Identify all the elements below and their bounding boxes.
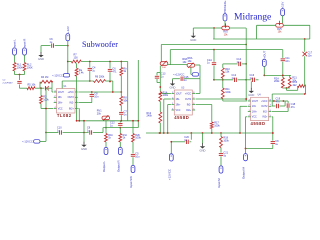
svg-text:TL082: TL082 — [57, 113, 72, 118]
wire — [105, 142, 107, 147]
svg-text:10n: 10n — [308, 54, 313, 57]
wire — [106, 80, 113, 82]
wire — [78, 102, 91, 104]
svg-text:GND: GND — [200, 149, 206, 153]
svg-text:1IN-: 1IN- — [176, 99, 181, 101]
svg-text:4k2: 4k2 — [293, 84, 298, 87]
wire — [202, 133, 204, 144]
resistor R9 — [120, 68, 123, 76]
junction — [83, 120, 85, 122]
wire — [271, 116, 274, 118]
svg-text:100k: 100k — [223, 139, 229, 142]
svg-text:1IN+: 1IN+ — [252, 111, 258, 113]
junction — [67, 45, 69, 47]
wire — [220, 133, 222, 137]
svg-text:Output M: Output M — [242, 167, 246, 179]
wire — [132, 142, 134, 153]
capacitor C18 — [287, 103, 289, 107]
wire mid col — [159, 67, 161, 92]
wire u4 right — [272, 100, 285, 102]
svg-text:VCC: VCC — [252, 117, 257, 119]
wire — [263, 66, 265, 75]
junction — [51, 81, 53, 83]
ground — [172, 81, 174, 84]
svg-text:Output L: Output L — [102, 161, 106, 172]
resistor R1b — [105, 134, 108, 143]
wire — [246, 79, 251, 81]
resistor R1A — [159, 92, 162, 102]
junction — [211, 132, 213, 134]
wire — [159, 123, 161, 133]
wire — [39, 82, 41, 88]
wire — [159, 65, 161, 68]
svg-text:IN2+: IN2+ — [186, 110, 192, 112]
resistor RL1 — [13, 63, 16, 72]
resistor R12 — [159, 112, 162, 123]
junction — [109, 81, 111, 83]
wire — [283, 24, 310, 26]
wire — [257, 24, 276, 26]
svg-text:Subwoofer: Subwoofer — [82, 40, 118, 49]
wire — [272, 144, 274, 148]
resistor R2b — [132, 134, 135, 143]
wire — [19, 75, 21, 81]
junction — [273, 100, 275, 102]
wire vcc top stub — [61, 81, 63, 88]
wire — [271, 105, 273, 107]
wire — [287, 89, 298, 91]
wire gnd stub — [250, 81, 252, 88]
resistor R4 — [40, 80, 52, 83]
wire — [213, 28, 215, 39]
resistor R10 — [221, 68, 224, 79]
wire — [220, 148, 222, 153]
junction — [83, 132, 85, 134]
svg-text:1.4k: 1.4k — [79, 72, 84, 75]
resistor Ra — [75, 68, 78, 76]
junction — [245, 98, 247, 100]
junction — [159, 132, 161, 134]
resistor R21 — [288, 78, 291, 89]
svg-text:2.2uF/63V: 2.2uF/63V — [3, 82, 14, 84]
svg-text:RV5: RV5 — [277, 29, 282, 31]
svg-text:10n: 10n — [285, 60, 290, 63]
junction — [213, 27, 215, 29]
wire — [189, 141, 191, 143]
ground — [192, 33, 194, 36]
capacitor C2 — [17, 81, 21, 83]
wire — [112, 81, 114, 92]
junction — [170, 141, 172, 143]
wire — [282, 62, 284, 78]
resistor R7 — [71, 60, 81, 63]
wire — [168, 104, 171, 106]
capacitor C3a — [52, 43, 54, 47]
wire — [256, 25, 258, 39]
capacitor C13 — [212, 63, 216, 65]
resistor R20 — [281, 78, 284, 89]
wire — [51, 82, 53, 88]
wire — [211, 105, 213, 123]
svg-text:POWER+12: POWER+12 — [223, 0, 227, 13]
svg-text:Input M: Input M — [217, 178, 221, 188]
wire — [229, 27, 246, 29]
svg-text:4558D: 4558D — [174, 115, 189, 120]
connector J12 — [219, 166, 223, 173]
svg-text:1IN-: 1IN- — [58, 97, 63, 99]
wire — [199, 65, 201, 79]
wire — [109, 62, 111, 69]
wire — [120, 105, 122, 111]
wire pair top — [264, 74, 291, 76]
svg-text:100k: 100k — [214, 124, 220, 127]
svg-text:+VCC: +VCC — [68, 92, 75, 94]
wire — [78, 109, 80, 121]
junction — [245, 44, 247, 46]
wire — [76, 76, 78, 121]
svg-text:OUT2: OUT2 — [185, 99, 192, 101]
wire pot3 left — [160, 45, 162, 62]
connector J13 — [244, 154, 248, 161]
wire y94 — [272, 93, 305, 95]
wire long feedback drop — [45, 88, 47, 132]
wire — [222, 99, 224, 101]
wire — [77, 108, 80, 110]
wire — [62, 80, 93, 82]
junction — [78, 120, 80, 122]
junction — [40, 87, 42, 89]
svg-text:GND: GND — [190, 38, 196, 42]
junction — [159, 132, 161, 134]
wire — [24, 55, 26, 62]
wire main mid drop — [245, 39, 247, 101]
wire drop 167 — [167, 105, 169, 134]
svg-text:+OUT: +OUT — [262, 50, 266, 58]
svg-text:100: 100 — [74, 56, 79, 59]
wire — [119, 121, 121, 123]
wire c11 col — [282, 50, 284, 58]
node input join — [19, 74, 21, 76]
resistor R6 — [94, 80, 106, 83]
wire — [213, 66, 215, 80]
capacitor C10 — [60, 130, 62, 134]
wire — [157, 82, 160, 84]
wire bottom rail subwoofer — [77, 120, 139, 122]
wire — [214, 27, 222, 29]
potentiometer RV1 — [102, 116, 110, 120]
capacitor C6 — [108, 69, 112, 71]
resistor R13 — [298, 85, 306, 88]
wire — [192, 28, 194, 33]
wire — [156, 79, 158, 83]
junction — [272, 132, 274, 134]
resistor R3 — [40, 96, 43, 104]
svg-text:100K: 100K — [17, 66, 23, 69]
wire — [279, 105, 285, 107]
svg-text:1OUT: 1OUT — [252, 101, 259, 103]
svg-text:IN2+: IN2+ — [69, 108, 75, 110]
wire — [190, 133, 192, 140]
svg-text:GND: GND — [170, 86, 176, 90]
junction — [239, 132, 241, 134]
wire — [67, 41, 69, 46]
wire bottom right — [246, 148, 273, 150]
wire — [284, 101, 286, 106]
capacitor C21 — [219, 154, 223, 156]
wire u4 pin5 drop — [272, 117, 274, 133]
op-amp U4 — [248, 95, 272, 126]
wire — [35, 87, 44, 89]
wire — [272, 133, 274, 141]
wire — [222, 78, 224, 88]
wire — [191, 73, 192, 75]
junction — [119, 127, 121, 129]
wire — [89, 62, 91, 68]
wire — [41, 108, 53, 110]
junction — [109, 61, 111, 63]
wire — [214, 79, 233, 81]
capacitor C9 — [90, 130, 92, 134]
junction — [120, 91, 122, 93]
wire bus y49 — [170, 49, 282, 51]
wire in2 row — [272, 111, 288, 113]
svg-text:1IN+: 1IN+ — [58, 102, 64, 104]
wire — [120, 115, 122, 121]
connector J0 — [66, 34, 70, 41]
junction — [245, 148, 247, 150]
capacitor C14 — [239, 62, 241, 66]
potentiometer RV4 — [187, 64, 195, 68]
junction — [272, 132, 274, 134]
power flag -12V bottom — [34, 140, 40, 143]
wire — [91, 97, 93, 102]
svg-text:<-12VCC: <-12VCC — [52, 73, 63, 77]
wire — [40, 88, 42, 95]
wire — [190, 67, 192, 74]
capacitor C12 — [118, 124, 122, 126]
svg-text:R6 200k: R6 200k — [95, 76, 105, 79]
wire — [309, 25, 311, 39]
wire — [159, 102, 161, 113]
wire mid bottom bus — [146, 132, 273, 134]
wire — [156, 73, 158, 76]
capacitor C15 — [181, 77, 183, 81]
junction — [213, 49, 215, 51]
wire out2 rail — [196, 98, 247, 100]
svg-text:100k: 100k — [43, 98, 49, 101]
resistor R18 — [220, 137, 223, 148]
wire — [246, 116, 248, 118]
wire — [132, 121, 134, 134]
connector J9 — [281, 9, 285, 16]
connector J7 — [131, 165, 135, 172]
junction — [67, 61, 69, 63]
potentiometer RV2 — [222, 26, 230, 30]
op-amp U3 — [172, 87, 196, 120]
wire — [184, 78, 200, 80]
svg-text:Output R: Output R — [116, 160, 120, 172]
ground — [202, 143, 204, 146]
node pot wiper — [105, 127, 107, 129]
junction — [137, 120, 139, 122]
junction — [45, 108, 47, 110]
junction — [91, 91, 93, 93]
wire — [40, 46, 42, 53]
wire — [119, 142, 121, 147]
wire — [283, 87, 290, 89]
wire J0 drop — [67, 46, 69, 74]
svg-text:OUT2: OUT2 — [261, 106, 268, 108]
junction — [76, 120, 78, 122]
junction — [304, 38, 306, 40]
wire — [164, 98, 171, 100]
svg-text:Midrange: Midrange — [234, 12, 271, 23]
wire — [196, 104, 212, 106]
wire — [89, 71, 91, 81]
capacitor C19 — [277, 104, 279, 108]
wire — [45, 133, 47, 142]
junction — [132, 120, 134, 122]
wire — [256, 79, 259, 81]
svg-text:200k: 200k — [274, 80, 280, 83]
svg-text:+12V: +12V — [281, 2, 285, 9]
wire — [120, 92, 122, 96]
junction — [213, 79, 215, 81]
svg-text:GND: GND — [81, 147, 87, 151]
wire — [41, 45, 51, 47]
wire — [52, 91, 53, 93]
capacitor C7 — [119, 112, 123, 114]
wire drop 240 — [239, 106, 241, 133]
wire — [289, 75, 291, 77]
junction — [120, 120, 122, 122]
svg-text:R5 10k: R5 10k — [28, 84, 37, 87]
capacitor C8 — [90, 95, 94, 97]
junction — [190, 132, 192, 134]
junction — [167, 132, 169, 134]
junction — [159, 86, 161, 88]
svg-text:Input R: Input R — [23, 39, 27, 48]
resistor R5 — [27, 87, 35, 90]
svg-text:+12VCC: +12VCC — [167, 169, 171, 180]
resistor R17 — [210, 122, 213, 129]
wire — [120, 76, 122, 93]
svg-text:<-12VCC: <-12VCC — [22, 140, 33, 144]
resistor R11 — [221, 88, 224, 99]
capacitor C12 — [235, 78, 237, 82]
wire bus y44 — [161, 44, 246, 46]
svg-text:47u: 47u — [291, 106, 296, 109]
junction — [245, 63, 247, 65]
capacitor C3 series — [45, 86, 48, 90]
wire — [120, 62, 122, 68]
junction — [220, 132, 222, 134]
op-amp U1 — [54, 86, 78, 118]
resistor RL2 — [23, 63, 26, 72]
svg-text:47u: 47u — [276, 101, 281, 104]
wire — [238, 79, 247, 81]
potentiometer RV3 — [160, 62, 168, 66]
junction — [286, 87, 288, 89]
wire — [286, 88, 288, 90]
wire — [201, 27, 215, 29]
wire — [304, 56, 306, 86]
wire — [20, 87, 28, 89]
junction — [245, 79, 247, 81]
wire — [285, 100, 288, 102]
junction — [159, 93, 161, 95]
wire bus sub — [68, 61, 72, 63]
junction — [163, 132, 165, 134]
wire — [193, 27, 200, 29]
wire — [51, 88, 53, 92]
junction — [120, 61, 122, 63]
wire — [105, 121, 107, 134]
wire — [15, 74, 25, 76]
wire c18 stub — [287, 101, 289, 103]
wire — [171, 141, 185, 143]
svg-text:1OUT: 1OUT — [58, 92, 65, 94]
wire — [195, 64, 200, 66]
wire — [211, 129, 213, 133]
wire — [305, 86, 307, 94]
svg-text:471: 471 — [112, 70, 117, 73]
wire — [14, 71, 16, 75]
wire — [170, 142, 172, 154]
wire — [196, 93, 200, 95]
wire c9 link — [102, 128, 104, 133]
junction — [222, 79, 224, 81]
wire — [222, 64, 224, 68]
wire pot loop right — [245, 28, 247, 39]
junction — [89, 80, 91, 82]
wire drop x127 — [127, 62, 129, 121]
wire x col — [304, 39, 306, 52]
wire — [160, 93, 171, 95]
svg-text:100K: 100K — [27, 66, 33, 69]
wire — [91, 92, 93, 94]
resistor R1c — [119, 134, 122, 143]
capacitor C20 — [186, 140, 188, 144]
junction — [245, 98, 247, 100]
capacitor C4 — [88, 68, 92, 70]
wire bus sub2 — [81, 61, 128, 63]
wire — [24, 71, 26, 75]
svg-text:10n: 10n — [94, 96, 99, 99]
wire — [119, 128, 121, 134]
capacitor C11 — [281, 59, 285, 61]
svg-text:IN2+: IN2+ — [262, 117, 268, 119]
power flag -12V left — [63, 74, 69, 77]
power flag +12 mid — [192, 73, 198, 76]
wire drop 245 — [245, 117, 247, 149]
connector J8 — [223, 14, 227, 21]
capacitor C22 — [271, 142, 275, 144]
svg-text:100k: 100k — [135, 137, 141, 140]
wire — [272, 105, 275, 107]
junction — [89, 61, 91, 63]
svg-text:Input L: Input L — [13, 39, 17, 48]
svg-text:VCC: VCC — [176, 110, 181, 112]
wire pots join — [168, 64, 187, 66]
svg-text:+VCC: +VCC — [261, 101, 268, 103]
wire — [242, 63, 246, 65]
svg-text:GND: GND — [248, 93, 254, 97]
svg-text:IN2-: IN2- — [263, 111, 268, 113]
wire — [40, 104, 42, 109]
svg-text:1OUT: 1OUT — [176, 93, 183, 95]
junction — [45, 87, 47, 89]
